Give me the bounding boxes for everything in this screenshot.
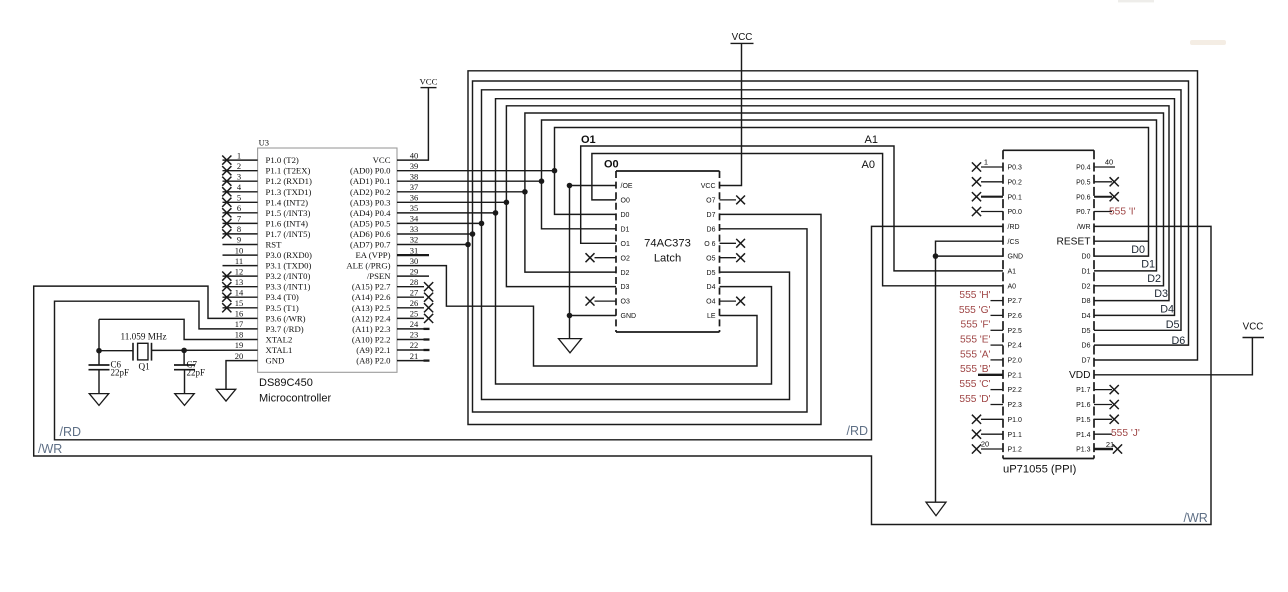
wire AD7 loop to PPI D7: [468, 71, 1198, 360]
svg-text:D0: D0: [1131, 244, 1145, 256]
svg-text:P3.3 (/INT1): P3.3 (/INT1): [266, 282, 311, 292]
PPI pin P1.6 (right): [1076, 400, 1119, 409]
PPI pin P0.5 (right): [1076, 177, 1119, 186]
svg-text:6: 6: [237, 203, 241, 213]
svg-text:P1.4: P1.4: [1076, 432, 1091, 439]
PPI pin P2.6 (left): [959, 305, 1022, 320]
wire AD1: U3 pin 38 to bus junction: [397, 180, 542, 182]
svg-text:P1.0 (T2): P1.0 (T2): [266, 155, 299, 165]
net label D0: [1131, 244, 1145, 256]
svg-text:555 'H': 555 'H': [959, 290, 990, 301]
svg-text:P2.4: P2.4: [1008, 343, 1023, 350]
svg-text:D0: D0: [621, 212, 630, 219]
latch pin VCC (right): [701, 183, 716, 190]
svg-text:LE: LE: [707, 313, 716, 320]
svg-text:/CS: /CS: [1008, 239, 1020, 246]
svg-text:8: 8: [237, 224, 241, 234]
svg-text:P0.7: P0.7: [1076, 209, 1091, 216]
wire AD5 wrap-around branch to latch D5: [482, 223, 790, 399]
U3 pin 8 P1.7 (/INT5): [222, 224, 310, 239]
svg-text:P3.0 (RXD0): P3.0 (RXD0): [266, 250, 312, 260]
svg-text:38: 38: [410, 171, 419, 181]
svg-text:(AD2) P0.2: (AD2) P0.2: [350, 187, 391, 197]
svg-text:/OE: /OE: [621, 183, 633, 190]
wire AD7 wrap-around branch to latch D7: [468, 214, 821, 424]
svg-text:20: 20: [235, 351, 244, 361]
svg-text:7: 7: [237, 214, 241, 224]
U3 pin 35 (AD4) P0.4: [350, 203, 418, 218]
svg-text:A1: A1: [1008, 269, 1017, 276]
svg-text:11.059 MHz: 11.059 MHz: [121, 331, 167, 341]
svg-text:GND: GND: [266, 356, 285, 366]
PPI pin P1.0 (left): [972, 415, 1022, 424]
PPI pin P1.3 (right): [1076, 440, 1122, 454]
refdes U3: [259, 138, 269, 148]
svg-text:VCC: VCC: [732, 32, 753, 43]
svg-text:VCC: VCC: [373, 155, 391, 165]
svg-text:O7: O7: [706, 198, 715, 205]
PPI pin P0.6 (right): [1076, 192, 1119, 201]
svg-text:(A10) P2.2: (A10) P2.2: [352, 335, 391, 345]
svg-text:P1.5 (/INT3): P1.5 (/INT3): [266, 208, 311, 218]
svg-text:D4: D4: [1082, 313, 1091, 320]
svg-text:O5: O5: [706, 255, 715, 262]
svg-text:GND: GND: [621, 313, 637, 320]
wire XTAL2 net: top loop to U3 pin 18: [99, 319, 258, 339]
junction PPI GND: [933, 253, 939, 259]
U3 pin 11 P3.1 (TXD0): [223, 256, 312, 271]
svg-text:35: 35: [410, 203, 419, 213]
U3 pin 40 VCC: [373, 150, 419, 165]
latch pin O2 (left): [586, 253, 630, 262]
wire AD6 loop to PPI D6: [473, 81, 1189, 345]
latch pin O7 (right): [706, 196, 745, 205]
U3 pin 28 (A15) P2.7: [352, 277, 433, 292]
svg-text:P3.5 (T1): P3.5 (T1): [266, 303, 299, 313]
label C6 22pF: [111, 360, 130, 378]
ground below C7: [175, 394, 195, 406]
svg-text:/PSEN: /PSEN: [367, 271, 391, 281]
svg-text:(AD0) P0.0: (AD0) P0.0: [350, 166, 391, 176]
PPI pin VDD (right): [1069, 370, 1091, 381]
svg-text:11: 11: [235, 256, 243, 266]
svg-text:P1.3: P1.3: [1076, 447, 1091, 454]
U3 pin 19 XTAL1: [235, 340, 293, 355]
svg-text:P2.3: P2.3: [1008, 402, 1023, 409]
svg-text:D5: D5: [1082, 328, 1091, 335]
PPI pin P2.3 (left): [959, 394, 1022, 409]
svg-text:33: 33: [410, 224, 419, 234]
svg-text:27: 27: [410, 287, 419, 297]
svg-text:DS89C450: DS89C450: [259, 377, 313, 389]
latch pin D4 (right): [707, 284, 716, 291]
svg-text:XTAL1: XTAL1: [266, 345, 293, 355]
svg-text:(AD7) P0.7: (AD7) P0.7: [350, 240, 391, 250]
U3 pin 38 (AD1) P0.1: [350, 171, 418, 186]
U3 pin 25 (A12) P2.4: [352, 309, 433, 324]
svg-text:/WR: /WR: [1077, 224, 1091, 231]
svg-text:32: 32: [410, 235, 419, 245]
latch pin O4 (right): [706, 297, 745, 306]
power VCC at U3 pin 40: [397, 77, 438, 161]
svg-text:22: 22: [410, 340, 419, 350]
PPI pin P0.3 (left): [972, 158, 1022, 172]
U3 pin 15 P3.5 (T1): [222, 298, 299, 313]
net label /RD (right): [847, 424, 869, 438]
svg-text:D5: D5: [707, 270, 716, 277]
net label D5: [1166, 319, 1180, 331]
svg-text:3: 3: [237, 171, 241, 181]
svg-text:40: 40: [410, 150, 419, 160]
node label A1: [865, 134, 878, 146]
PPI pin D8 (right): [1082, 298, 1091, 305]
wire AD4 loop to PPI D4: [496, 99, 1175, 316]
svg-text:GND: GND: [1008, 254, 1024, 261]
PPI pin P1.7 (right): [1076, 385, 1119, 394]
U3 pin 21 (A8) P2.0: [356, 351, 429, 366]
svg-text:D1: D1: [1141, 258, 1155, 270]
svg-text:(AD5) P0.5: (AD5) P0.5: [350, 218, 391, 228]
junction AD3: [504, 200, 510, 206]
U3 pin 33 (AD6) P0.6: [350, 224, 418, 239]
PPI pin P2.0 (left): [960, 349, 1022, 364]
latch pin D2 (left): [621, 270, 630, 277]
svg-text:40: 40: [1105, 158, 1113, 167]
wire PPI GND pin: [936, 255, 1004, 257]
wire ALE (U3 pin 30) to latch LE: [397, 266, 757, 366]
PPI pin D5 (right): [1082, 328, 1091, 335]
svg-text:P2.7: P2.7: [1008, 298, 1023, 305]
svg-text:P0.5: P0.5: [1076, 179, 1091, 186]
PPI pin P0.7 (right): [1076, 207, 1136, 218]
svg-text:(A8) P2.0: (A8) P2.0: [356, 356, 391, 366]
crystal Q1: [133, 343, 152, 361]
svg-text:555 'F': 555 'F': [961, 320, 991, 331]
svg-text:23: 23: [410, 330, 419, 340]
svg-text:34: 34: [410, 214, 419, 224]
latch pin D0 (left): [621, 212, 630, 219]
wire U3 GND pin 20 to ground: [226, 361, 258, 390]
wire AD3: U3 pin 36 to bus junction: [397, 201, 506, 203]
refdes Q1: [139, 362, 151, 372]
svg-text:(A9) P2.1: (A9) P2.1: [356, 345, 390, 355]
svg-text:555 'C': 555 'C': [959, 379, 990, 390]
junction AD6: [470, 231, 476, 237]
svg-text:O4: O4: [706, 299, 715, 306]
PPI pin P0.0 (left): [972, 207, 1022, 216]
latch pin O 6 (right): [704, 239, 745, 248]
U3 pin 3 P1.2 (RXD1): [222, 171, 312, 186]
value label uP71055 (PPI): [1003, 464, 1077, 476]
PPI pin P1.4 (right): [1076, 428, 1140, 439]
svg-text:(AD6) P0.6: (AD6) P0.6: [350, 229, 391, 239]
svg-text:uP71055 (PPI): uP71055 (PPI): [1003, 464, 1077, 476]
svg-text:P3.2 (/INT0): P3.2 (/INT0): [266, 271, 311, 281]
wire AD2 branch to latch D2: [525, 192, 616, 272]
junction AD1: [539, 178, 545, 184]
svg-text:P2.2: P2.2: [1008, 387, 1023, 394]
svg-text:15: 15: [235, 298, 244, 308]
PPI pin D6 (right): [1082, 343, 1091, 350]
svg-text:28: 28: [410, 277, 419, 287]
svg-text:P3.1 (TXD0): P3.1 (TXD0): [266, 261, 312, 271]
wire AD2: U3 pin 37 to bus junction: [397, 191, 525, 193]
svg-text:Microcontroller: Microcontroller: [259, 392, 331, 404]
svg-text:P1.5: P1.5: [1076, 417, 1091, 424]
wire /WR: U3 P3.6 around to PPI /WR: [34, 226, 1211, 524]
junction C7 tap: [181, 348, 187, 354]
svg-text:1: 1: [984, 158, 988, 167]
svg-text:555 'B': 555 'B': [960, 364, 991, 375]
junction crystal left / C6: [96, 348, 102, 354]
capacitor C7: [174, 365, 195, 394]
wire AD0: U3 pin 39 to bus junction: [397, 170, 555, 172]
U3 pin 5 P1.4 (INT2): [222, 193, 308, 208]
net label /RD (left): [60, 425, 82, 439]
junction AD4: [493, 210, 499, 216]
wire down to ground: [569, 316, 571, 339]
PPI pin P1.2 (left): [972, 440, 1022, 454]
PPI pin D1 (right): [1082, 269, 1091, 276]
latch pin D6 (right): [707, 226, 716, 233]
U3 pin 36 (AD3) P0.3: [350, 193, 418, 208]
svg-text:RST: RST: [266, 240, 283, 250]
U3 pin 4 P1.3 (TXD1): [222, 182, 311, 197]
svg-text:O1: O1: [621, 241, 630, 248]
net O0-A0 rail: [592, 154, 1003, 286]
PPI pin A0 (left): [1008, 283, 1017, 290]
net label D3: [1154, 288, 1168, 300]
svg-text:P2.0: P2.0: [1008, 358, 1023, 365]
PPI pin D0 (right): [1082, 254, 1091, 261]
svg-text:555 'A': 555 'A': [960, 349, 991, 360]
wire C7 vertical: [183, 350, 185, 365]
svg-text:21: 21: [410, 351, 419, 361]
svg-text:555 'E': 555 'E': [960, 335, 991, 346]
U3 pin 27 (A14) P2.6: [352, 287, 433, 302]
ground below latch: [559, 339, 582, 353]
svg-text:(A12) P2.4: (A12) P2.4: [352, 313, 391, 323]
PPI pin P0.1 (left): [972, 192, 1022, 201]
latch pin O1 (left): [621, 241, 630, 248]
svg-text:24: 24: [410, 319, 419, 329]
svg-text:(AD1) P0.1: (AD1) P0.1: [350, 176, 391, 186]
svg-text:74AC373: 74AC373: [644, 238, 691, 250]
svg-text:D8: D8: [1082, 298, 1091, 305]
wire AD1 branch to latch D1: [542, 181, 617, 229]
svg-text:17: 17: [235, 319, 244, 329]
PPI pin P0.2 (left): [972, 177, 1022, 186]
PPI pin P1.5 (right): [1076, 415, 1119, 424]
svg-text:P1.6 (INT4): P1.6 (INT4): [266, 218, 309, 228]
svg-text:555 'G': 555 'G': [959, 305, 991, 316]
svg-text:U3: U3: [259, 138, 269, 148]
net label /WR (right): [1184, 511, 1208, 525]
latch pin /OE (left): [621, 183, 633, 190]
svg-text:A0: A0: [1008, 283, 1017, 290]
svg-text:22pF: 22pF: [187, 368, 206, 378]
svg-text:P1.3 (TXD1): P1.3 (TXD1): [266, 187, 312, 197]
svg-text:O2: O2: [621, 255, 630, 262]
wire AD1 loop to PPI D1: [542, 120, 1157, 271]
wire C6 vertical (XTAL2 side): [98, 319, 100, 365]
U3 pin 34 (AD5) P0.5: [350, 214, 419, 229]
svg-text:D0: D0: [1082, 254, 1091, 261]
PPI pin P2.4 (left): [960, 335, 1022, 350]
U3 pin 32 (AD7) P0.7: [350, 235, 418, 250]
scan smudge top-right: [1118, 0, 1226, 45]
svg-text:(A15) P2.7: (A15) P2.7: [352, 282, 391, 292]
wire AD0 loop to PPI D0: [555, 128, 1149, 257]
latch pin D7 (right): [707, 212, 716, 219]
svg-text:2: 2: [237, 161, 241, 171]
value label 74AC373 Latch: [644, 238, 691, 265]
svg-text:10: 10: [235, 245, 244, 255]
svg-text:P1.2: P1.2: [1008, 447, 1023, 454]
svg-text:D2: D2: [1147, 273, 1161, 285]
svg-text:P1.7 (/INT5): P1.7 (/INT5): [266, 229, 311, 239]
U3 pin 12 P3.2 (/INT0): [222, 266, 310, 281]
svg-text:P1.1 (T2EX): P1.1 (T2EX): [266, 166, 311, 176]
wire AD7: U3 pin 32 to bus junction: [397, 244, 468, 246]
PPI pin P2.1 (left): [960, 364, 1022, 379]
wire AD4 wrap-around branch to latch D4: [496, 213, 772, 384]
svg-text:21: 21: [1106, 440, 1114, 449]
PPI pin P2.2 (left): [959, 379, 1022, 394]
svg-text:P1.0: P1.0: [1008, 417, 1023, 424]
svg-text:EA (VPP): EA (VPP): [356, 250, 391, 260]
U3 pin 20 GND: [235, 351, 285, 366]
svg-text:O3: O3: [621, 299, 630, 306]
svg-text:P1.2 (RXD1): P1.2 (RXD1): [266, 176, 312, 186]
svg-text:XTAL2: XTAL2: [266, 335, 293, 345]
node label O0: [604, 159, 619, 171]
latch pin D3 (left): [621, 284, 630, 291]
U3 pin 17 P3.7 (/RD): [235, 319, 304, 334]
svg-text:P1.7: P1.7: [1076, 387, 1091, 394]
power VCC at PPI VDD: [1094, 322, 1264, 375]
svg-text:P3.6 (/WR): P3.6 (/WR): [266, 313, 306, 323]
svg-text:VCC: VCC: [419, 77, 437, 87]
wire AD6: U3 pin 33 to bus junction: [397, 233, 473, 235]
junction latch GND: [567, 313, 573, 319]
PPI pin /WR (right): [1077, 224, 1091, 231]
wire AD5: U3 pin 34 to bus junction: [397, 222, 482, 224]
svg-text:(AD4) P0.4: (AD4) P0.4: [350, 208, 391, 218]
svg-text:30: 30: [410, 256, 419, 266]
svg-text:5: 5: [237, 193, 241, 203]
junction /OE: [567, 183, 573, 189]
svg-text:P1.1: P1.1: [1008, 432, 1023, 439]
svg-text:P2.5: P2.5: [1008, 328, 1023, 335]
capacitor C6: [89, 365, 110, 394]
net label D6: [1171, 335, 1185, 347]
wire AD5 loop to PPI D5: [482, 90, 1182, 330]
svg-text:22pF: 22pF: [111, 368, 130, 378]
power VCC at latch (top centre): [720, 32, 754, 186]
U3 pin 13 P3.3 (/INT1): [222, 277, 310, 292]
node label A0: [862, 159, 875, 171]
svg-text:D3: D3: [621, 284, 630, 291]
wire PPI RESET spur: [1094, 240, 1149, 242]
svg-text:D6: D6: [1082, 343, 1091, 350]
wire /OE-GND vertical: [569, 186, 571, 316]
svg-text:16: 16: [235, 309, 244, 319]
U3 pin 39 (AD0) P0.0: [350, 161, 418, 176]
svg-text:A0: A0: [862, 159, 875, 171]
svg-text:18: 18: [235, 330, 244, 340]
U3 pin 24 (A11) P2.3: [352, 319, 429, 334]
svg-text:(A11) P2.3: (A11) P2.3: [352, 324, 390, 334]
svg-text:ALE (/PRG): ALE (/PRG): [346, 261, 390, 271]
net label D2: [1147, 273, 1161, 285]
svg-text:VCC: VCC: [701, 183, 716, 190]
U3 pin 7 P1.6 (INT4): [222, 214, 308, 229]
svg-text:D2: D2: [1082, 283, 1091, 290]
svg-text:D1: D1: [1082, 269, 1091, 276]
PPI pin P1.1 (left): [972, 430, 1022, 439]
svg-text:O1: O1: [581, 134, 596, 146]
svg-text:P2.1: P2.1: [1008, 372, 1023, 379]
microcontroller U3 DS89C450 body: [258, 148, 397, 372]
svg-text:25: 25: [410, 309, 419, 319]
svg-text:P0.4: P0.4: [1076, 165, 1091, 172]
svg-text:19: 19: [235, 340, 244, 350]
svg-text:31: 31: [410, 245, 419, 255]
wire AD3 branch to latch D3: [506, 202, 616, 286]
svg-text:/WR: /WR: [38, 442, 62, 456]
svg-text:P3.4 (T0): P3.4 (T0): [266, 292, 299, 302]
latch pin O0 (left): [621, 198, 630, 205]
PPI pin D2 (right): [1082, 283, 1091, 290]
PPI U2 uP71055 body: [1003, 150, 1094, 458]
svg-text:D1: D1: [621, 226, 630, 233]
svg-text:P0.1: P0.1: [1008, 194, 1023, 201]
wire crystal left plate: [99, 350, 133, 352]
svg-text:P1.4 (INT2): P1.4 (INT2): [266, 197, 309, 207]
svg-text:P0.3: P0.3: [1008, 165, 1023, 172]
svg-text:D4: D4: [1160, 304, 1174, 316]
svg-text:36: 36: [410, 193, 419, 203]
wire latch /OE tie: [570, 185, 617, 187]
latch pin D5 (right): [707, 270, 716, 277]
svg-text:P3.7 (/RD): P3.7 (/RD): [266, 324, 304, 334]
wire AD6 wrap-around branch to latch D6: [473, 229, 808, 412]
svg-text:555 'I': 555 'I': [1109, 207, 1136, 218]
U3 pin 9 RST: [223, 235, 283, 250]
svg-text:20: 20: [981, 440, 989, 449]
svg-text:A1: A1: [865, 134, 878, 146]
svg-text:39: 39: [410, 161, 419, 171]
svg-text:P0.2: P0.2: [1008, 179, 1023, 186]
svg-text:RESET: RESET: [1057, 237, 1091, 248]
svg-text:D7: D7: [707, 212, 716, 219]
PPI pin P2.5 (left): [961, 320, 1022, 335]
svg-text:D6: D6: [707, 226, 716, 233]
svg-text:(A13) P2.5: (A13) P2.5: [352, 303, 391, 313]
svg-text:555 'J': 555 'J': [1111, 428, 1140, 439]
PPI pin RESET (right): [1057, 237, 1091, 248]
junction AD7: [465, 242, 471, 248]
latch pin D1 (left): [621, 226, 630, 233]
U3 pin 26 (A13) P2.5: [352, 298, 433, 313]
U3 pin 14 P3.4 (T0): [222, 287, 299, 302]
svg-text:D7: D7: [1082, 358, 1091, 365]
PPI pin /CS (left): [1008, 239, 1020, 246]
svg-text:26: 26: [410, 298, 419, 308]
latch pin LE (right): [707, 313, 716, 320]
U3 pin 30 ALE (/PRG): [346, 256, 418, 271]
